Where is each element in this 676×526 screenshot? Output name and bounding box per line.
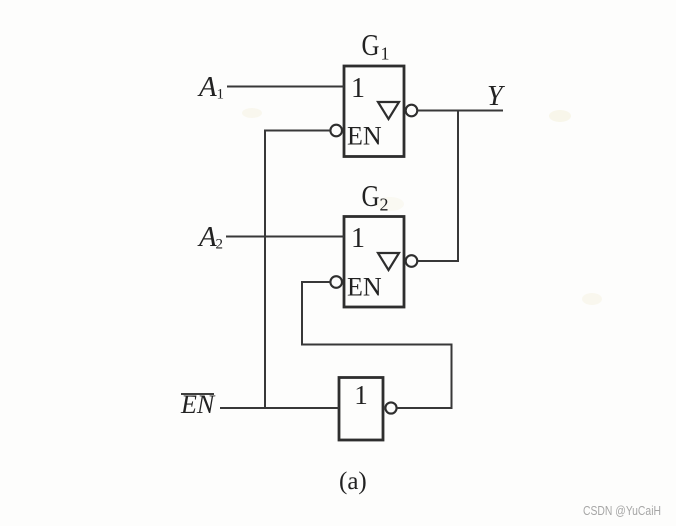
svg-text:1: 1: [354, 380, 368, 410]
G2 output bubble: [406, 255, 418, 267]
wire Y output from G1: [417, 110, 503, 112]
G1 EN input bubble: [330, 125, 342, 137]
wire G1 EN to left bus: [265, 130, 330, 132]
wire EN-bar input: [220, 407, 339, 409]
wire inverter output: [397, 407, 453, 409]
wire mid horizontal: [301, 344, 452, 346]
svg-text:(a): (a): [339, 468, 367, 495]
inverter gate (1): [339, 378, 383, 441]
svg-text:EN: EN: [347, 122, 382, 151]
svg-text:G: G: [362, 178, 380, 213]
wire Y vertical tie: [457, 111, 459, 262]
svg-text:A: A: [197, 71, 217, 103]
tri-state buffer G2: [344, 217, 404, 308]
svg-text:G: G: [362, 27, 380, 62]
svg-text:2: 2: [380, 195, 389, 215]
svg-text:CSDN @YuCaiH: CSDN @YuCaiH: [583, 504, 661, 518]
wire A2 input: [226, 236, 344, 238]
svg-text:2: 2: [216, 237, 224, 253]
G1 tri-state triangle symbol: [378, 102, 399, 119]
wire mid vertical: [301, 281, 303, 345]
EN-bar overline: [181, 393, 214, 395]
svg-text:1: 1: [381, 44, 390, 64]
wire right vertical: [451, 344, 453, 409]
tri-state buffer G1: [344, 66, 404, 157]
G2 tri-state triangle symbol: [378, 253, 399, 270]
wire left vertical bus: [264, 130, 266, 409]
wire G2 EN to inverter output: horizontal from EN bubble: [302, 281, 330, 283]
svg-text:A: A: [197, 221, 217, 253]
G2 EN input bubble: [330, 276, 342, 288]
svg-text:1: 1: [217, 87, 225, 103]
wire G2 output to Y: [417, 260, 459, 262]
G1 output bubble: [406, 105, 418, 117]
svg-text:1: 1: [351, 73, 365, 104]
inverter output bubble: [385, 402, 396, 413]
svg-text:EN: EN: [347, 273, 382, 302]
svg-text:1: 1: [351, 223, 365, 254]
wire A1 input: [227, 86, 344, 88]
